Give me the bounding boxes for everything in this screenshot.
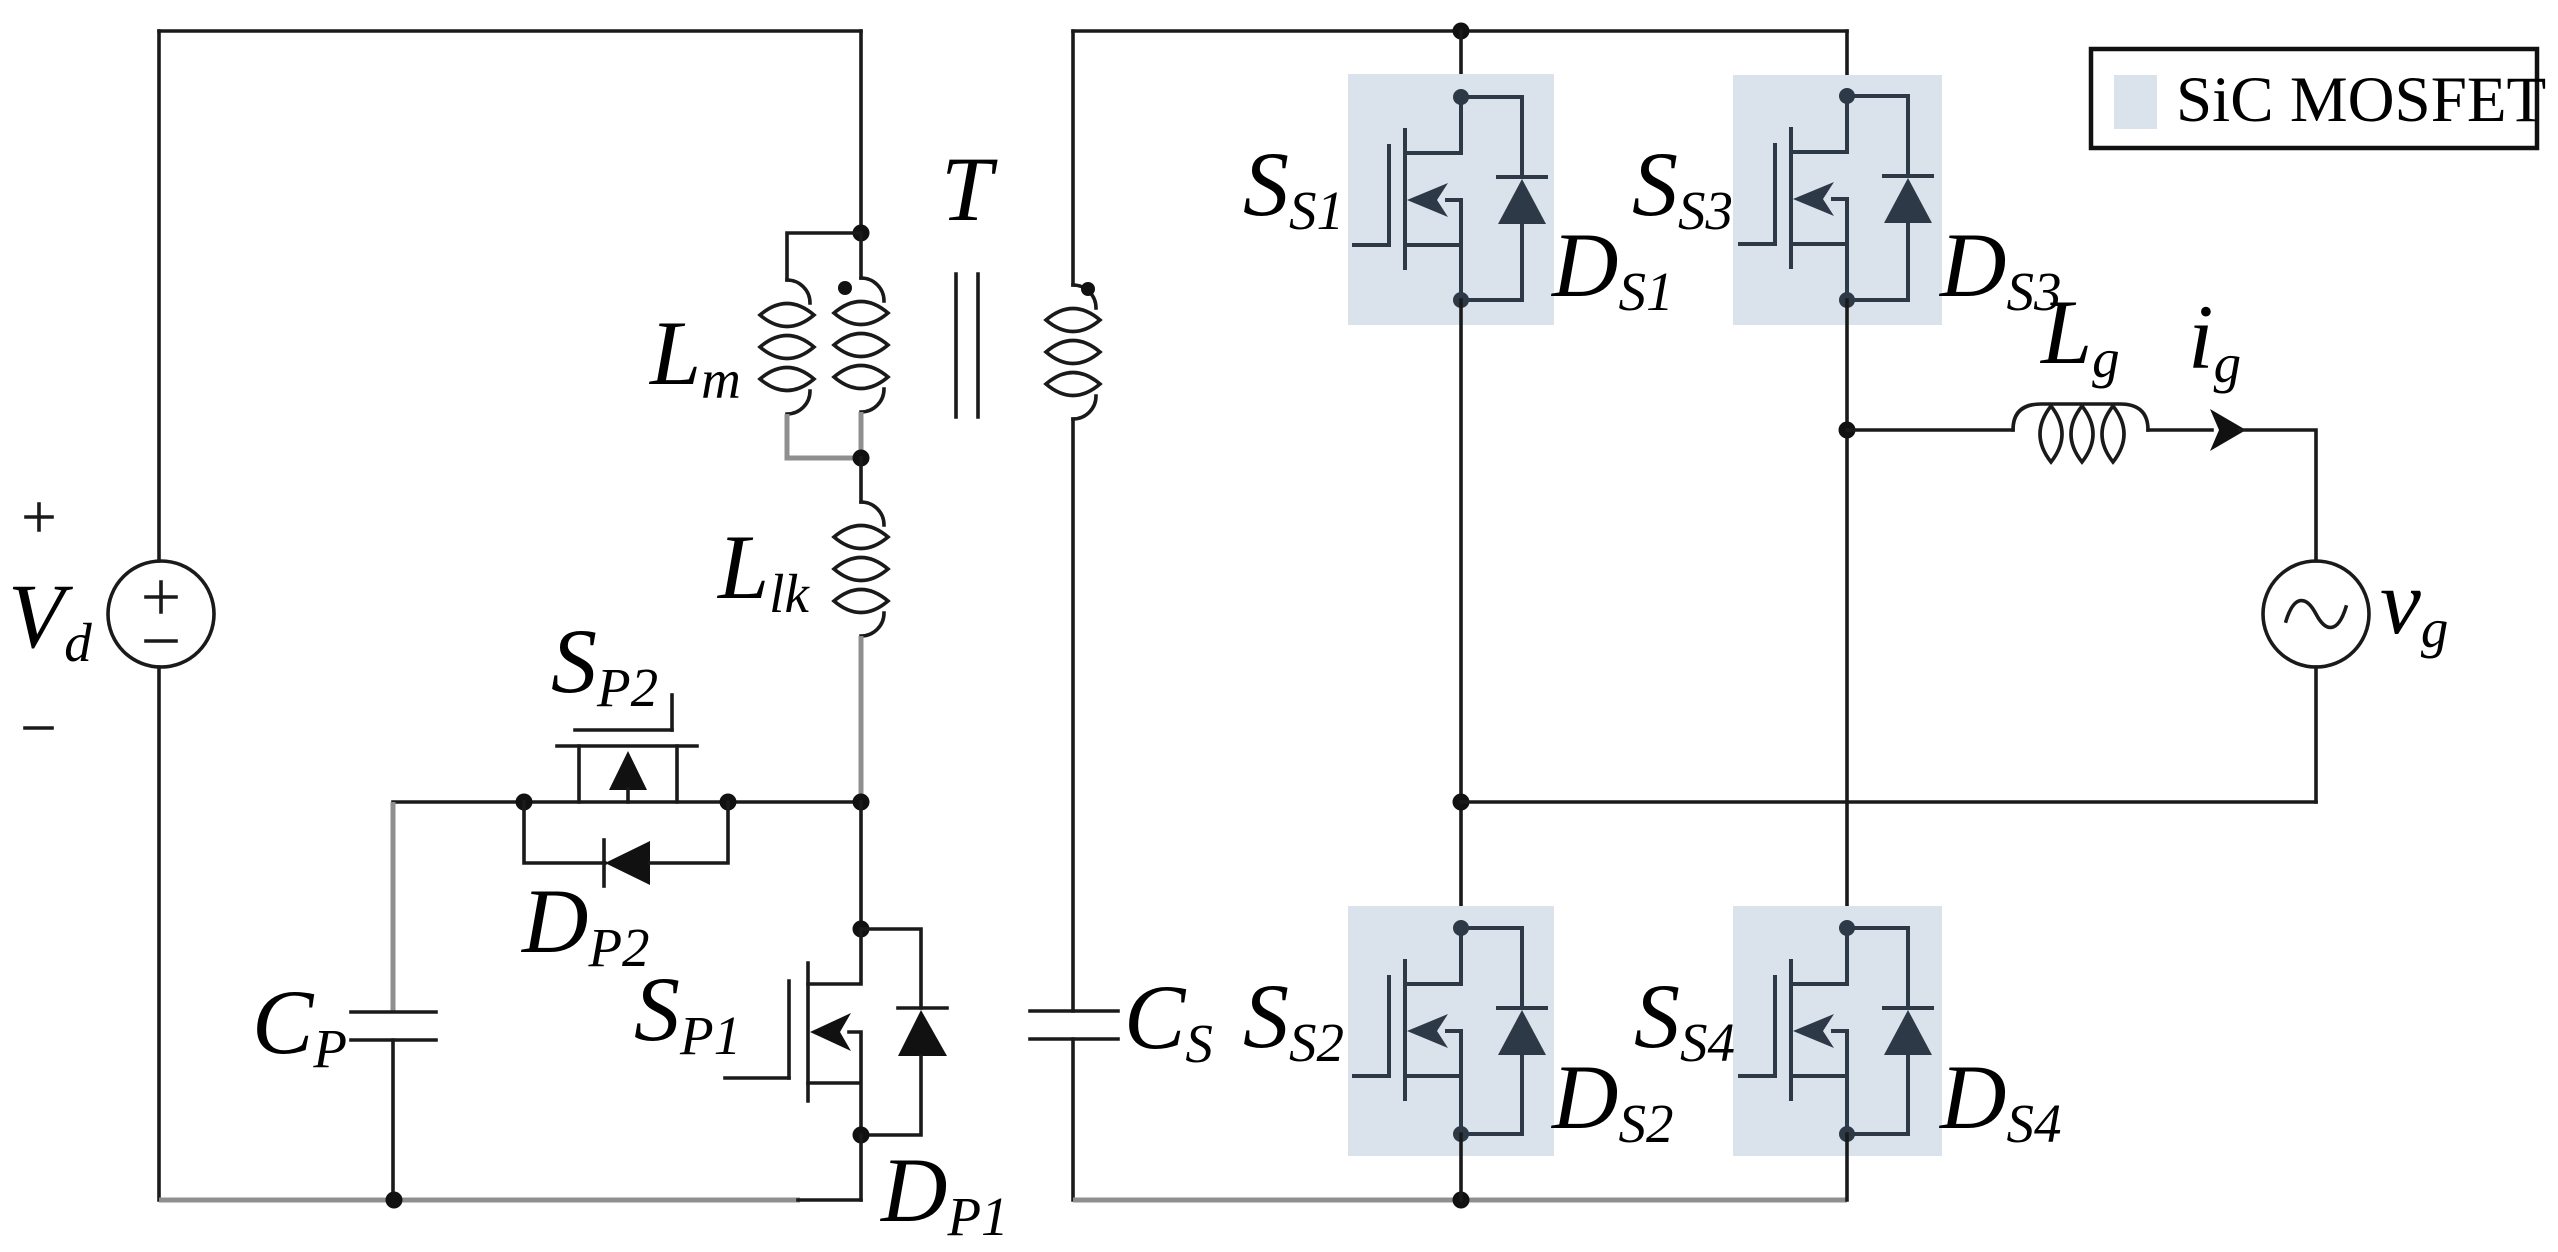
wire secondary left leg middle: [1071, 419, 1075, 1011]
wire leg1 middle: [1459, 300, 1463, 928]
wire secondary phase rail: [1461, 800, 2316, 804]
wire primary bottom rail right: [798, 1198, 861, 1202]
wire leg2 bottom: [1845, 1134, 1849, 1200]
svg-text:T: T: [941, 138, 998, 240]
node primary winding top: [853, 225, 870, 242]
SiC cell SS1: [1348, 74, 1554, 325]
wire Lg to arrow: [2148, 428, 2212, 432]
label + (Vd polarity top): [26, 504, 52, 530]
transistor SP2: [557, 695, 697, 802]
capacitor CS: [1030, 1011, 1118, 1200]
wire secondary top bus: [1073, 29, 1847, 33]
transformer core: [956, 274, 978, 417]
node CP bottom: [386, 1192, 403, 1209]
node SP2 right: [720, 794, 737, 811]
wire secondary left leg top: [1071, 31, 1075, 285]
node top bus leg1: [1453, 23, 1470, 40]
wire leg2 middle: [1845, 300, 1849, 928]
wire leg1 bottom: [1459, 1134, 1463, 1200]
svg-text:SiC MOSFET: SiC MOSFET: [2176, 64, 2546, 136]
node primary center: [853, 794, 870, 811]
inductor Llk: [834, 502, 888, 636]
polarity dot primary: [838, 281, 852, 295]
node SP1 drain: [853, 921, 870, 938]
node Lg tap: [1839, 422, 1856, 439]
wire vg bottom: [2314, 667, 2318, 802]
transistor SP1: [725, 929, 861, 1135]
SiC cell SS2: [1348, 906, 1554, 1156]
wire Lm branch top: [787, 233, 861, 280]
capacitor CP: [351, 802, 436, 1200]
wire Lg lead: [1847, 428, 2013, 432]
node rail leg1: [1453, 1192, 1470, 1209]
label - (Vd polarity bottom): [25, 726, 52, 730]
wire leg2 top: [1845, 31, 1849, 96]
transformer T primary winding: [834, 233, 888, 456]
wire Lm branch bottom: [787, 414, 861, 458]
source Vd: [108, 561, 214, 667]
diode DP1: [861, 929, 947, 1135]
wire leg1 top: [1459, 31, 1463, 97]
wire left rail lower: [157, 667, 161, 1200]
node SP2 left: [516, 794, 533, 811]
node SP1 source: [853, 1127, 870, 1144]
wire phase node to SP1: [859, 802, 863, 929]
wire primary bottom rail: [159, 1198, 800, 1203]
wire primary top right drop: [859, 31, 863, 233]
inductor Lg: [2013, 404, 2148, 462]
node phase leg1: [1453, 794, 1470, 811]
wire Llk top stem: [859, 458, 863, 502]
wire secondary bottom rail: [1073, 1198, 1847, 1203]
wire left rail upper: [157, 31, 161, 561]
wire primary phase node line: [393, 800, 861, 804]
inductor Lm: [760, 280, 814, 414]
wire top primary bus: [159, 29, 861, 33]
SiC cell SS4: [1733, 906, 1942, 1156]
legend box: [2091, 49, 2546, 148]
wire arrow to vg: [2240, 430, 2316, 561]
node primary winding bottom: [853, 450, 870, 467]
arrow ig: [2210, 409, 2246, 451]
SiC cell SS3: [1733, 75, 1942, 325]
wire SP1 source to rail: [859, 1135, 863, 1200]
polarity dot secondary: [1081, 282, 1095, 296]
transformer T secondary winding: [1046, 285, 1100, 419]
wire Llk to phase node: [859, 636, 864, 802]
source vg: [2263, 561, 2369, 667]
diode DP2: [524, 802, 728, 886]
